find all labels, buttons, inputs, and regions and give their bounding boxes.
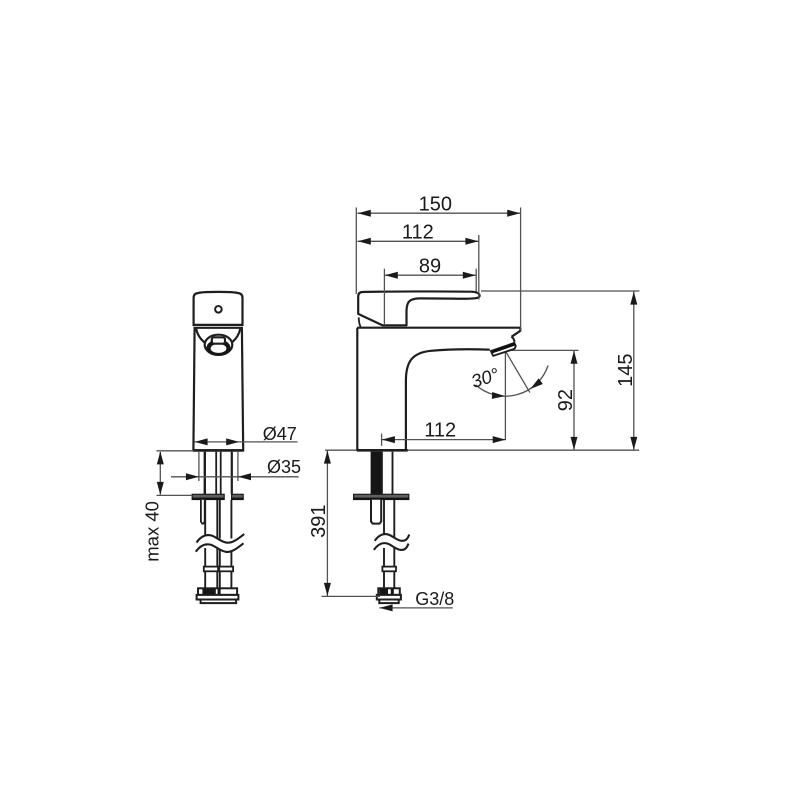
dimension 150 [357,212,520,214]
spout dome arc (front) [196,329,240,347]
faucet front view: handle cap [194,292,243,325]
side view: hose below break (lower segment) [383,548,385,589]
spout tip: strip bottom edge [491,345,517,356]
dimension O47 [194,441,297,443]
dimension 92 [573,351,575,450]
side view: hose above flange [381,452,383,495]
front view: mounting shank extension lines (O35) [198,452,200,481]
thin reference: horizontal from spout tip to 92 dim [505,349,578,351]
faucet front view: body [193,328,243,451]
dimension 112 bottom extension [381,434,383,446]
front view: hose collars [204,567,218,572]
dimension 391 bottom extension [322,595,381,597]
front view: break squiggle lines [197,534,245,543]
side view: base/spout front curve [406,349,490,450]
spout tip: notch edge [512,337,515,342]
svg-text:30°: 30° [468,363,501,392]
side view below deck: black threaded stud [371,452,382,495]
dimension 112 top extension [478,235,480,300]
front view: mounting flange (left part) [192,494,224,499]
30 degree arc [476,366,548,397]
side view: base left edge [356,328,358,451]
side view: lever handle [358,291,479,325]
front view: hose outlines above flange [215,452,217,495]
spout tip: lower white strip [492,345,516,356]
svg-text:150: 150 [419,194,452,216]
front view: bottom hose nut [198,588,237,595]
dimension 89 [384,274,476,276]
side view: lever back bottom curve [359,317,361,327]
deck / counter line [325,449,639,451]
dimension 145 extension line [481,290,639,292]
dimension 145 [633,292,635,451]
dimension 112 bottom [382,439,506,441]
dimension max 40 [157,450,194,452]
handle cap dot [215,306,222,313]
side view: body top long line [357,327,521,329]
aerator front: outer ring [205,335,233,355]
side view: base bottom thick edge [357,449,408,452]
front view: threaded stud edge above flange [204,452,206,495]
dimension O35 [171,476,299,478]
svg-text:89: 89 [419,255,441,277]
svg-text:max 40: max 40 [142,501,163,562]
svg-text:92: 92 [555,389,577,411]
front view: break squiggle mask [196,534,244,552]
front view: stud below flange [201,500,205,524]
side view: hose collar [382,567,396,572]
svg-text:Ø35: Ø35 [267,457,301,477]
front view: mounting flange (right part) [232,494,244,499]
dimension 112 top [357,240,478,242]
thin reference: vertical from spout tip [504,351,506,440]
svg-text:391: 391 [308,505,330,538]
side view: hose below flange (upper segment) [383,500,385,539]
svg-text:112: 112 [424,419,456,441]
svg-text:112: 112 [402,222,434,244]
thin reference: 30 degree diagonal [506,351,530,392]
side view: stud below flange [371,500,381,524]
dimension 150 extension lines [355,208,357,295]
aerator front: top tab [212,337,225,343]
svg-text:G3/8: G3/8 [415,589,454,609]
side view: break squiggle mask [374,534,409,550]
front body bottom thick edge [193,449,244,452]
aerator front: dark U ring [207,340,231,356]
dimension 391 [326,451,328,597]
side view: mounting flange [354,494,409,499]
front view: hoses below flange (upper segment) [204,500,206,539]
front view: hoses below break (lower segment) [204,548,206,589]
side view: break squiggle lines [375,534,410,541]
dimension 89 extension lines [383,269,385,325]
side view: bottom hose nut [378,588,400,595]
G3/8 leader line and arrow [379,607,452,609]
spout tip: end edge [512,328,521,337]
svg-text:Ø47: Ø47 [263,424,297,444]
spout tip: black aerator band [490,342,516,354]
svg-text:145: 145 [615,354,637,387]
